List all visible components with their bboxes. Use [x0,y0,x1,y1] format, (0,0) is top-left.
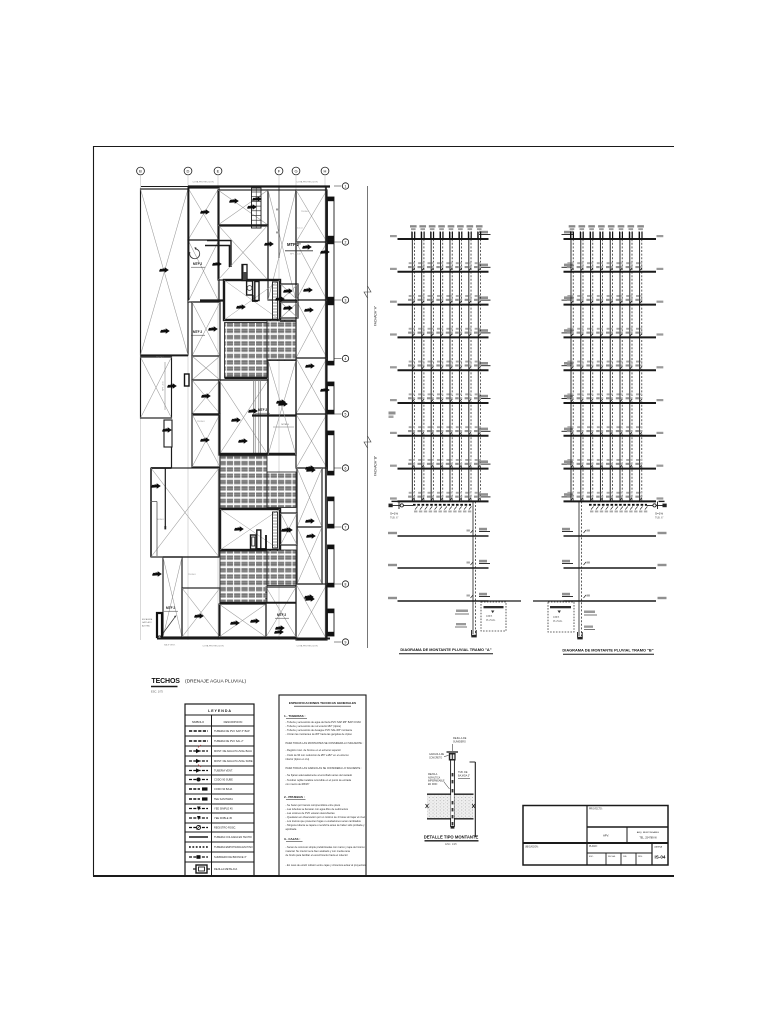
drain symbol BAP-12 [304,307,314,312]
svg-text:REV:: REV: [638,856,643,858]
svg-text:D: D [187,169,190,174]
room [192,302,220,356]
left riser down pipe [472,501,474,634]
sheet frame top border [93,146,674,148]
down pipe elbow [471,635,476,638]
facade dimension line [367,186,369,648]
ramp arrow [161,617,175,636]
svg-text:con marco de Ø3/16": con marco de Ø3/16" [286,782,310,786]
drain symbol BAP-24 [162,427,172,432]
svg-text:IS-04: IS-04 [655,855,666,860]
svg-text:CODO 90 SUBE: CODO 90 SUBE [214,778,233,782]
svg-text:PLANO :: PLANO : [589,845,598,848]
ground extension [489,600,522,602]
legend row 6 [185,783,254,785]
drain symbol BAP-21 [151,483,161,488]
floor level platform left [562,266,574,268]
drain symbol BAP-35 [305,518,315,523]
bottom small cells [587,852,652,854]
svg-text:5: 5 [345,412,347,416]
svg-text:TUB. 6": TUB. 6" [655,517,663,520]
legend row 15 [196,865,207,873]
grid bubble E [214,167,222,175]
drain symbol BAP-43 [320,249,330,254]
svg-text:MTF 2: MTF 2 [277,613,286,617]
svg-text:SALE VENT.: SALE VENT. [164,644,176,647]
hatch area upper-left [225,323,268,378]
svg-text:TECHO: TECHO [156,519,164,521]
riser floor lines [398,238,489,240]
svg-text:- Tendran rejilla metalica rem: - Tendran rejilla metalica removible en … [286,778,352,782]
svg-text:TECHO: TECHO [188,574,196,576]
top main wall [188,185,330,187]
small dim line bottom-left room [164,362,166,410]
drain symbol BAP-25 [201,393,211,398]
svg-text:REJILLA METALICA: REJILLA METALICA [214,867,237,871]
svg-text:MTF 2: MTF 2 [193,330,202,334]
svg-text:MONT. DE AGUA PLUVIAL SUBE: MONT. DE AGUA PLUVIAL SUBE [214,759,253,763]
svg-text:E: E [217,169,220,174]
svg-text:B: B [139,169,142,174]
riser pipes [570,232,572,501]
room [188,188,219,240]
svg-text:APV.: APV. [603,834,609,838]
room [296,358,327,414]
svg-text:1: 1 [345,184,347,188]
svg-text:ARQ. RESPONSABLE: ARQ. RESPONSABLE [637,831,660,834]
svg-text:COTA PROYECCION: COTA PROYECCION [202,645,224,648]
legend row 1 [185,735,254,737]
drain symbol BAP-20 [306,467,316,472]
drain symbol BAP-10 [275,296,285,301]
svg-text:ESC. 1/25: ESC. 1/25 [445,843,457,846]
svg-text:PLUVIAL: PLUVIAL [486,619,496,622]
right riser lower floors [564,535,657,537]
room [218,190,268,225]
svg-text:DIB:: DIB: [623,856,627,858]
drain symbol BAP-8 [212,261,222,266]
break symbol 1 [364,286,371,298]
svg-text:- Registro rosc. de bronce en: - Registro rosc. de bronce en el extremo… [286,748,342,752]
legend row 10 [185,822,254,824]
legend row 2 [185,745,254,747]
apv cell [626,827,628,843]
grid bubble D [184,167,192,175]
svg-text:H: H [324,169,327,174]
spiral stair [190,249,200,259]
room [141,189,189,355]
inner step lower-left room [151,501,158,503]
drain symbol BAP-40 [283,305,293,310]
right main wall [325,186,327,640]
detail drain head [447,751,459,753]
drain symbol BAP-17 [248,408,258,413]
drain symbol BAP-6 [264,241,274,246]
svg-text:- Codo de 90 con reduccion de: - Codo de 90 con reduccion de Ø3" a Ø2" … [286,753,350,757]
svg-text:TUB. 6": TUB. 6" [390,517,398,520]
drain symbol BAP-23 [167,383,177,388]
svg-text:SIMBOLO: SIMBOLO [192,720,204,724]
pipe bottom cap [451,826,455,829]
svg-text:S=1%: S=1% [390,512,398,516]
svg-text:TEL. 254789 W: TEL. 254789 W [639,837,657,840]
svg-text:- Las uniones de PVC estaran d: - Las uniones de PVC estaran descubierta… [286,811,336,815]
room [182,588,220,637]
drain symbol BAP-7 [302,244,312,249]
left riser collector [413,504,471,506]
drain symbol BAP-16 [200,437,210,442]
drain symbol BAP-14 [160,328,170,333]
grid bubble row 1 [334,185,342,187]
column grid lines [140,176,142,640]
hatch area lower-left [220,551,267,603]
svg-text:(DRENAJE AGUA PLUVIAL): (DRENAJE AGUA PLUVIAL) [185,679,246,685]
funnel marks [408,262,415,271]
svg-text:FACHADA "A": FACHADA "A" [374,306,378,326]
svg-text:1.- TUBERIAS :: 1.- TUBERIAS : [284,714,306,718]
grid bubble F [275,167,283,175]
svg-text:PARA TODAS LAS GARGOLAS SE: PARA TODAS LAS GARGOLAS SE CONSIDERA LO … [286,766,363,770]
hatch area mid-left [220,456,267,508]
svg-text:- Tuberia y accesorios de agua: - Tuberia y accesorios de agua de lluvia… [286,720,362,724]
room [219,380,268,455]
grid bubble row 6 [334,467,342,469]
drain symbol BAP-4 [252,196,262,201]
title block outer [523,806,668,866]
left riser lower floors [398,535,489,537]
svg-text:L E Y E N D A: L E Y E N D A [208,709,231,713]
floor level platform right [479,332,491,334]
svg-text:PROYECTO :: PROYECTO : [589,809,603,811]
svg-text:G: G [294,169,297,174]
svg-text:CIST.: CIST. [553,615,560,619]
drain symbol BAP-27 [305,465,315,470]
floor level platform right [479,398,491,400]
drain symbol BAP-26 [276,399,286,404]
elevator shafts A [247,281,253,295]
drain symbol BAP-18 [278,401,288,406]
grid bubble row 2 [334,241,342,243]
room [297,527,322,584]
wall D upper [188,186,190,300]
svg-text:TECHO: TECHO [156,357,164,359]
svg-text:terraza: terraza [281,423,289,426]
svg-text:GARGOLA DE: GARGOLA DE [429,753,445,756]
svg-text:DESCRIPCION: DESCRIPCION [224,720,243,724]
svg-text:MTF 2: MTF 2 [166,606,175,610]
drain symbol BAP-30 [230,620,240,625]
right riser cistern [548,602,574,632]
svg-text:aprobada: aprobada [286,827,297,831]
specifications box [279,695,366,876]
svg-text:8: 8 [345,582,347,586]
floor level platform left [562,463,574,465]
svg-text:DETALLE TIPO MONTANTE: DETALLE TIPO MONTANTE [424,835,479,840]
room [268,190,296,300]
hatch area lower-right [267,550,296,586]
drain symbol BAP-32 [274,629,284,634]
grid bubble row 7 [334,526,342,528]
hatch area mid-right [267,472,296,508]
drain symbol BAP-44 [320,387,330,392]
legend table [185,704,254,876]
room [151,468,219,557]
drain symbol BAP-9 [236,304,246,309]
floor level platform right [479,365,491,367]
svg-text:ESPECIFICACIONES TECNICAS GENE: ESPECIFICACIONES TECNICAS GENERALES [289,701,356,705]
room [296,414,327,468]
legend row 3 [185,755,254,757]
svg-text:SUMIDERO DE BRONCE 3": SUMIDERO DE BRONCE 3" [214,855,247,859]
grid bubble H [321,167,329,175]
room [268,360,296,455]
svg-text:GATO ACC.: GATO ACC. [142,621,153,624]
svg-text:NPT +2.50: NPT +2.50 [163,380,165,390]
room [192,356,220,380]
room [188,240,219,302]
drain symbol BAP-33 [234,526,244,531]
svg-text:4: 4 [345,357,347,361]
svg-text:inferior (tipico en c/u): inferior (tipico en c/u) [286,757,310,761]
floor level platform left [562,365,574,367]
grid bubble row 3 [334,299,342,301]
drain symbol BAP-3 [229,198,239,203]
detail pipe [450,761,452,828]
legend row 11 [185,831,254,833]
room [281,513,298,545]
svg-text:9: 9 [345,640,347,644]
down pipe crossing ticks right [584,530,587,533]
down pipe crossing ticks [471,530,474,533]
svg-text:- Ninguna tuberia se tapara o: - Ninguna tuberia se tapara o recubrira … [286,823,366,827]
room A right tick strip [273,282,278,320]
pipe labels right [584,611,595,614]
grid bubble row 8 [334,583,342,585]
drain symbol BAP-29 [194,613,204,618]
small level label cluster left of riser [389,412,396,415]
drain symbol BAP-31 [250,618,260,623]
drain symbol BAP-34 [281,527,291,532]
floor level platform left [562,430,574,432]
legend row 13 [185,851,254,853]
svg-text:MONT. DE AGUA PLUVIAL BAJA: MONT. DE AGUA PLUVIAL BAJA [214,749,252,753]
room [296,190,327,242]
svg-text:3: 3 [345,298,347,302]
floor level platform right [479,299,491,301]
svg-text:YEE DOBLE 45: YEE DOBLE 45 [214,816,233,820]
inner wall lower-left room [164,468,166,529]
room [297,468,322,527]
slab end ticks [426,804,429,808]
room A top box [242,265,247,281]
elevator shafts B [251,535,257,549]
riser pipes [411,232,413,501]
grid bubble B [137,167,145,175]
svg-text:balcon: balcon [297,228,303,230]
svg-text:TEE SANITARIA: TEE SANITARIA [214,797,233,801]
svg-text:AZOTEA: AZOTEA [142,624,150,627]
bottom main wall [157,638,330,640]
svg-text:- Quedaran en observacion por: - Quedaran en observacion por un minimo … [286,815,366,819]
central machine room A [224,280,280,320]
room [219,604,266,637]
svg-text:CODO 90 BAJA: CODO 90 BAJA [214,787,233,791]
right riser collector [589,504,647,506]
room [192,380,220,414]
stair run [252,188,262,228]
drain symbol BAP-36 [306,533,316,538]
svg-text:- Tuberia y accesorios de desa: - Tuberia y accesorios de desague PVC SA… [286,728,353,732]
svg-text:ESC:: ESC: [589,856,594,858]
svg-text:CONCRETO: CONCRETO [429,757,442,759]
room [141,357,172,418]
grid bubble row 9 [334,641,342,643]
svg-text:IMPERMEABLE: IMPERMEABLE [428,780,445,783]
room [281,302,299,318]
svg-text:- Tuberia y accesorios de red: - Tuberia y accesorios de red exterior Ø… [286,724,342,728]
floor level platform right [479,496,491,498]
svg-text:FACHADA "B": FACHADA "B" [374,456,378,476]
hatch area upper-right [267,320,296,361]
room [163,557,182,637]
svg-text:2: 2 [345,240,347,244]
svg-text:MTF 2°: MTF 2° [287,242,301,247]
floor level platform left [562,299,574,301]
drain symbol BAP-5 [247,204,257,209]
svg-text:TUBERIA EMPOTRADA EN PISO: TUBERIA EMPOTRADA EN PISO [214,845,253,849]
bridge wall upper [280,320,296,322]
svg-text:ESC. 1/75: ESC. 1/75 [151,690,163,694]
drain symbol BAP-38 [304,594,314,599]
drain symbol BAP-41 [283,527,293,532]
grid bubble row 4 [334,358,342,360]
legend row 14 [185,861,254,863]
sheet frame left border [93,146,95,876]
svg-text:PARA TODAS LAS MONTANTES SE: PARA TODAS LAS MONTANTES SE CONSIDERA LO… [286,741,364,745]
floor level platform right [479,463,491,465]
grid bubble G [292,167,300,175]
floor level platform left [562,234,574,236]
svg-text:TUBERIA VENT.: TUBERIA VENT. [214,769,233,773]
floor level platform right [479,234,491,236]
drain symbol BAP-13 [208,326,218,331]
svg-text:TECHO: TECHO [301,211,309,213]
legend row 7 [185,793,254,795]
central machine room B [220,509,280,550]
svg-text:6: 6 [345,466,347,470]
room [281,284,299,301]
svg-text:DIAGRAMA DE MONTANTE PLUVIAL T: DIAGRAMA DE MONTANTE PLUVIAL TRAMO "A" [400,647,491,652]
svg-text:- Se haran por tramos comprend: - Se haran por tramos comprendidos entre… [286,803,341,807]
lamina cell [651,843,653,865]
svg-text:YEE SIMPLE 45: YEE SIMPLE 45 [214,807,233,811]
right edge balcony strip [328,197,335,240]
slab with concrete texture [427,795,451,818]
svg-text:PLUVIAL: PLUVIAL [553,620,563,623]
drain symbol BAP-11 [303,287,313,292]
drain symbol BAP-28 [305,596,315,601]
drain symbol BAP-22 [152,571,162,576]
svg-text:COTA PROYECCION: COTA PROYECCION [296,645,318,648]
sheet frame bottom border [93,875,674,877]
left riser cistern [481,602,506,631]
small door rect on D wall [185,374,190,386]
room [218,225,268,280]
legend row 9 [185,812,254,814]
svg-text:BAJADA 3": BAJADA 3" [458,774,470,777]
svg-text:- Los tramos que presenten fug: - Los tramos que presenten fugas o exuda… [286,819,362,823]
drain symbol BAP-37 [275,625,285,630]
wall y300 [200,299,225,301]
legend row 4 [185,765,254,767]
drain symbol BAP-39 [283,288,293,293]
svg-text:EN FRIO: EN FRIO [428,784,438,786]
svg-text:MEZCLA: MEZCLA [428,773,438,776]
svg-text:S=1%: S=1% [655,512,663,516]
pipe inner marks [452,773,454,776]
svg-text:TECHO: TECHO [197,421,205,423]
svg-text:TECHOS: TECHOS [152,678,181,685]
room [266,587,296,637]
svg-text:NPT +31.00: NPT +31.00 [290,254,302,256]
riser floor lines [564,238,657,240]
title block vertical main [586,806,588,866]
right riser down pipe [578,501,580,636]
svg-text:- Uniran las montantes de Ø3": - Uniran las montantes de Ø3" hacia las … [286,732,353,736]
room [296,242,327,300]
svg-text:TUBERIA DE PVC SAP 3" BAP: TUBERIA DE PVC SAP 3" BAP [214,729,250,733]
svg-text:MTF 2: MTF 2 [193,262,202,266]
svg-text:TUBERIA COLGADA EN TECHO: TUBERIA COLGADA EN TECHO [214,835,252,839]
drain symbol BAP-2 [200,209,210,214]
svg-text:UBICACION :: UBICACION : [525,846,539,849]
F line tick labels [276,209,279,211]
svg-text:7: 7 [345,525,347,529]
wall y245 L [205,245,230,247]
svg-text:MTF 2: MTF 2 [258,408,267,412]
bridge wall at 415 [252,414,296,416]
svg-text:ESCALERA: ESCALERA [142,618,153,621]
svg-text:ASFALTICA: ASFALTICA [428,776,441,779]
floor level platform left [562,496,574,498]
svg-text:3.- CAJAS :: 3.- CAJAS : [284,837,300,841]
down pipe elbow right [577,637,582,640]
door black rect [157,613,162,637]
svg-text:DIAGRAMA DE MONTANTE PLUVIAL T: DIAGRAMA DE MONTANTE PLUVIAL TRAMO "B" [562,648,653,653]
room [192,414,220,467]
floor level platform right [479,266,491,268]
svg-text:REGISTRO ROSC.: REGISTRO ROSC. [214,826,236,830]
room B right tick strip [273,512,278,548]
room [296,300,327,358]
legend row 8 [185,803,254,805]
svg-text:COTA PROYECCION: COTA PROYECCION [192,181,214,184]
room [296,584,327,640]
ground extension right [533,600,564,602]
svg-text:- Las tuberias se llenaran con: - Las tuberias se llenaran con agua libr… [286,807,349,811]
floor level platform left [562,332,574,334]
svg-text:COTA PROYECCION: COTA PROYECCION [296,181,318,184]
pipe labels [456,610,468,613]
svg-text:2.- PRUEBAS :: 2.- PRUEBAS : [284,795,305,799]
legend row 12 [185,841,254,843]
legend row 5 [185,774,254,776]
floor level platform left [562,398,574,400]
step box left boundary [164,420,172,447]
svg-text:TUBERIA DE PVC SAL 2": TUBERIA DE PVC SAL 2" [214,739,244,743]
drain symbol BAP-1 [159,267,169,272]
svg-text:LAMINA: LAMINA [654,846,663,849]
